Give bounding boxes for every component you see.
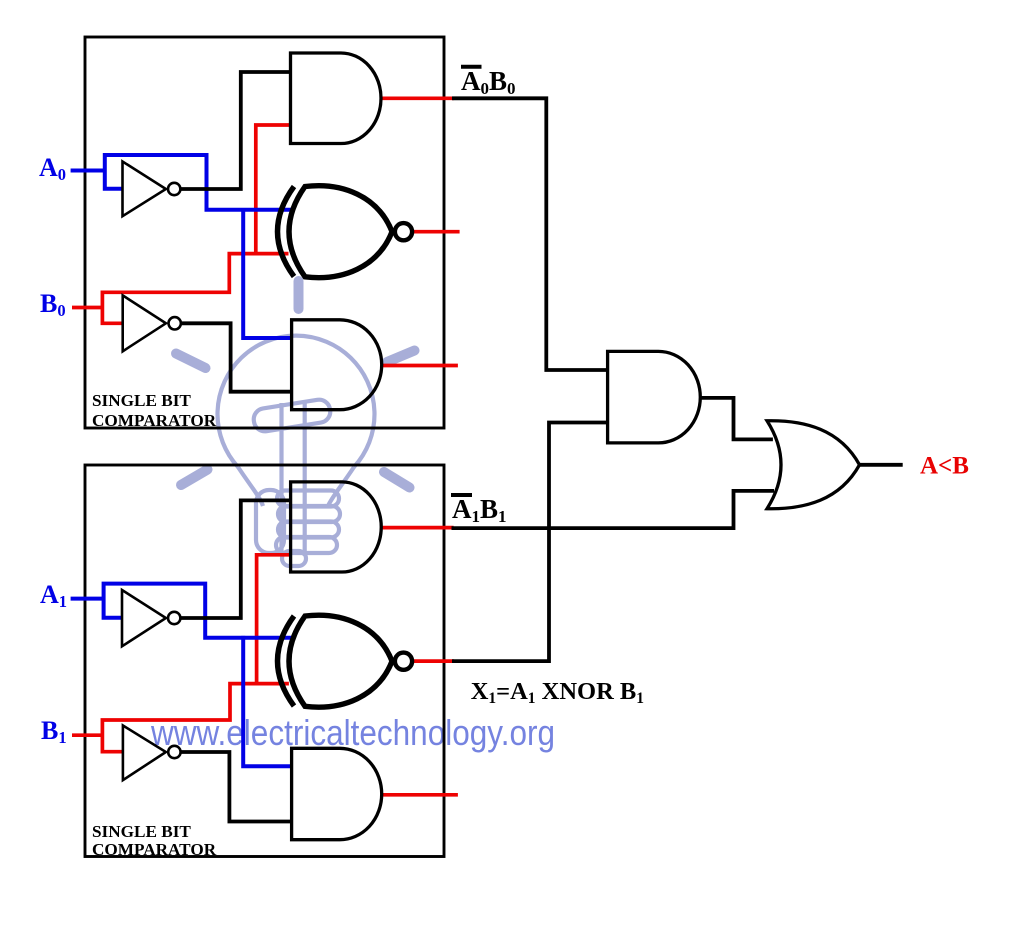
wire NOT1-B output to AND1-bot input 2	[181, 752, 292, 822]
wire X1 net to AND-R input 2	[452, 423, 608, 662]
and-gate AND1-bot	[292, 748, 382, 839]
wire NOT1-A output to AND1-top input 1	[180, 500, 290, 618]
watermark ray upper-left	[176, 354, 206, 369]
svg-text:A1: A1	[40, 580, 67, 611]
watermark bulb glass	[218, 336, 375, 467]
GATES	[291, 53, 860, 840]
and-gate AND0-top	[291, 53, 382, 144]
watermark ray top	[294, 281, 304, 309]
wire A1 loop to XNOR1 upper input	[104, 584, 292, 638]
wire NOT0-B output to AND0-bot input 2	[181, 323, 292, 391]
and-gate AND1-top	[291, 482, 382, 572]
wire B1 input	[72, 733, 103, 737]
wire NOT0-A output to AND0-top input 1	[181, 72, 291, 189]
overbar of A1	[451, 493, 472, 497]
watermark stem line right	[303, 400, 307, 556]
wire A0'B0 net to AND-R input 1	[452, 98, 608, 370]
wire AND-R output to OR input 1	[700, 398, 773, 440]
WATERMARK	[218, 336, 375, 566]
wire XNOR0 output stub	[412, 230, 460, 234]
watermark ray lower-right	[384, 472, 410, 488]
xnor-gate XNOR1 back arc	[278, 616, 295, 706]
wire A0 loop to XNOR0 upper input	[105, 155, 292, 210]
wire XNOR1 output (X1)	[412, 659, 455, 663]
xnor-gate XNOR0 body	[289, 186, 392, 278]
overbar of A0	[461, 65, 482, 69]
svg-text:A1B1: A1B1	[452, 494, 507, 526]
watermark stem line left	[279, 403, 283, 556]
and-gate AND-R	[608, 351, 701, 443]
inverter NOT1-A	[122, 590, 166, 646]
inverter NOT0-B	[123, 295, 166, 351]
watermark finger 4	[276, 537, 337, 553]
wire A0 branch to AND0-bot input 1	[243, 208, 292, 338]
svg-text:X1=A1 XNOR B1: X1=A1 XNOR B1	[471, 678, 644, 707]
svg-text:B0: B0	[40, 289, 66, 320]
watermark diagonal bar	[252, 398, 332, 433]
xnor-gate XNOR1 body	[289, 615, 392, 707]
box: single bit comparator 0	[85, 37, 444, 428]
svg-text:COMPARATOR: COMPARATOR	[92, 840, 217, 859]
wire B1 loop to XNOR1 lower input	[102, 684, 289, 752]
wire B1 branch to AND1-top input 2	[257, 555, 291, 686]
watermark bulb tip	[282, 551, 306, 566]
BLACK WIRES	[180, 72, 902, 822]
wire AND1-bot output stub	[382, 793, 458, 797]
wire AND0-top output (A0'B0)	[381, 96, 454, 100]
svg-text:A0B0: A0B0	[461, 66, 516, 98]
wire B0 loop to XNOR0 lower input	[102, 254, 288, 324]
and-gate AND0-bot	[292, 320, 382, 410]
xnor-gate XNOR1 output bubble	[395, 653, 412, 670]
svg-text:A<B: A<B	[920, 453, 969, 480]
box: single bit comparator 1	[85, 465, 444, 857]
svg-text:A0: A0	[39, 153, 66, 184]
watermark finger 3	[278, 522, 339, 538]
wire A1 input	[71, 597, 105, 601]
RED WIRES	[72, 98, 460, 795]
xnor-gate XNOR0 output bubble	[395, 223, 412, 240]
wire B0 branch to AND0-top input 2	[256, 125, 291, 256]
BLUE WIRES	[71, 155, 292, 766]
wire B0 input	[72, 306, 103, 310]
svg-text:SINGLE BIT: SINGLE BIT	[92, 822, 191, 841]
inverter NOT1-B	[123, 726, 166, 781]
xnor-gate XNOR0 back arc	[278, 187, 295, 277]
watermark palm	[256, 490, 284, 553]
inverter NOT0-A	[123, 162, 166, 217]
watermark ray lower-left	[181, 470, 208, 486]
watermark bulb neck left	[238, 467, 263, 506]
watermark ray upper-right	[387, 351, 415, 363]
watermark bulb neck right	[328, 467, 354, 506]
wire AND1-top output (A1'B1)	[381, 526, 453, 530]
watermark finger 2	[278, 506, 340, 522]
wire A1'B1 net to OR input 2	[452, 491, 775, 528]
watermark finger 1	[277, 491, 339, 507]
wire A0 input	[71, 169, 105, 173]
svg-text:SINGLE BIT: SINGLE BIT	[92, 391, 191, 410]
wire A1 branch to AND1-bot input 1	[243, 636, 292, 766]
svg-text:B1: B1	[41, 716, 67, 747]
or-gate OR-R	[767, 421, 860, 509]
wire OR output A<B	[860, 463, 903, 467]
svg-text:COMPARATOR: COMPARATOR	[92, 411, 217, 430]
wire AND0-bot output stub	[382, 364, 458, 368]
